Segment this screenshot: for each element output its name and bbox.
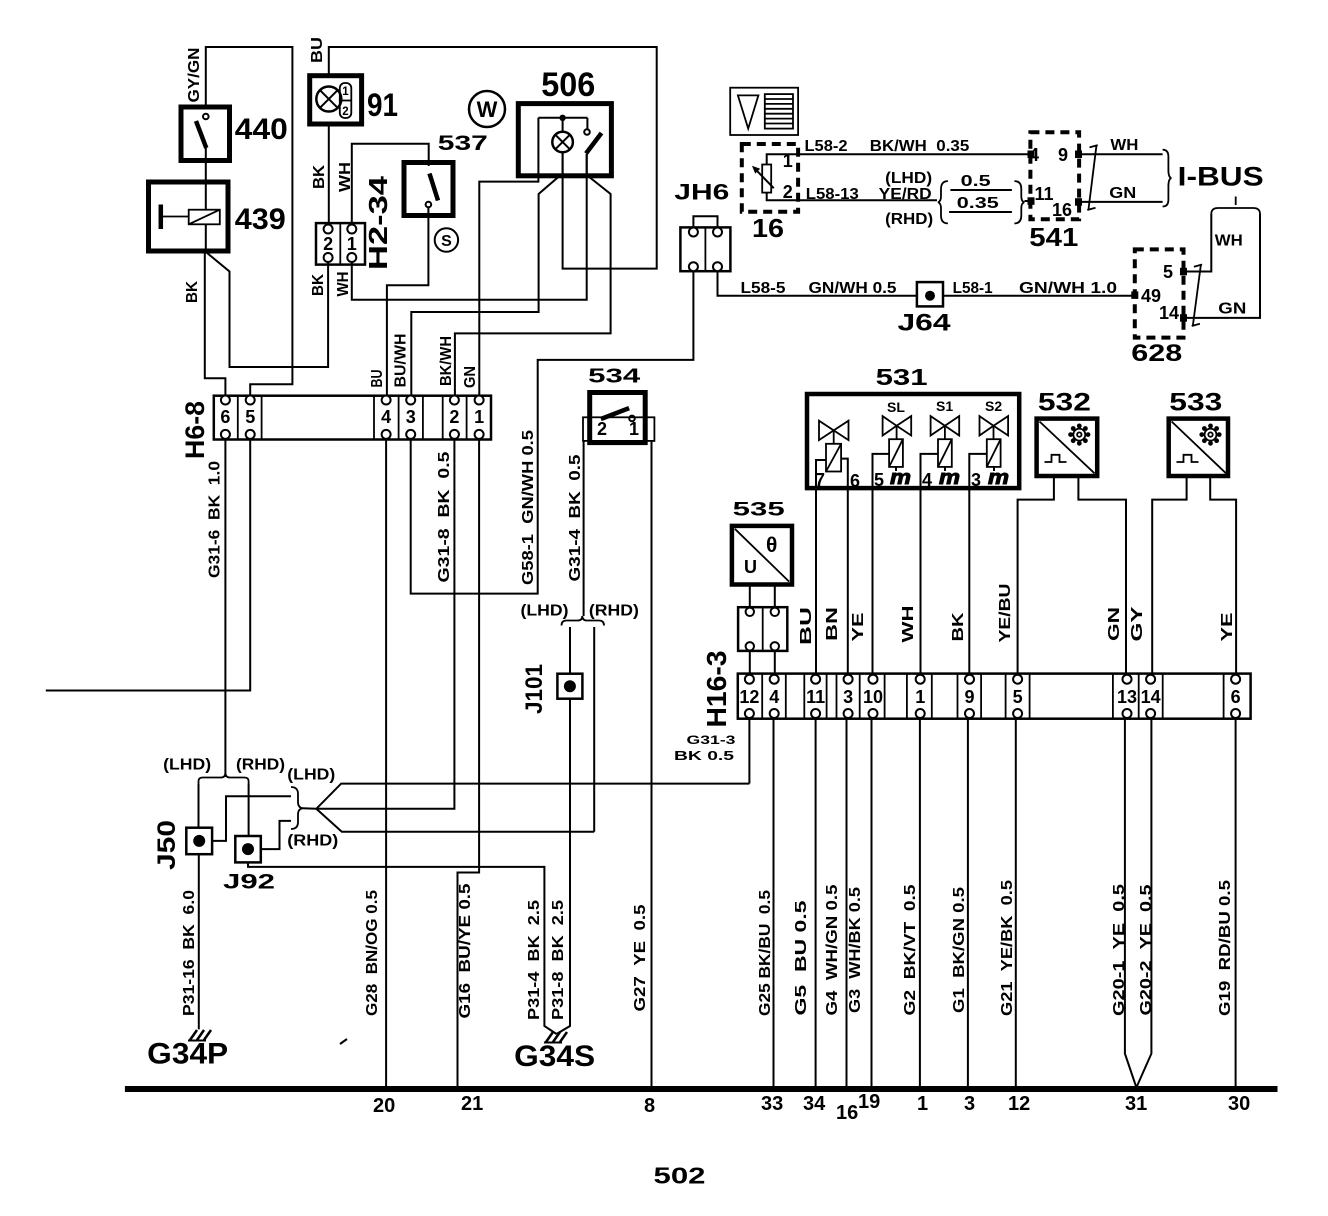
wire 535 stubs	[749, 585, 751, 608]
svg-text:3: 3	[964, 1093, 975, 1115]
wire J92 right to merge brace	[261, 821, 291, 849]
svg-text:502: 502	[654, 1163, 706, 1189]
twisted pair mark 628	[1192, 265, 1202, 327]
wire JH6 top bridge	[693, 216, 717, 227]
svg-text:G1 BK/GN 0.5: G1 BK/GN 0.5	[951, 887, 968, 1013]
svg-text:12: 12	[1008, 1093, 1030, 1115]
svg-text:GN: GN	[1106, 607, 1123, 641]
wire H6-8 pin 2 to LHD/RHD merge point (G31-8 BK 0.5)	[316, 439, 454, 809]
svg-text:SL: SL	[887, 399, 905, 415]
ground G34P	[188, 1030, 211, 1041]
wire 531 pin6 to H16-3 pin 3	[847, 488, 849, 675]
wire 541 pin9 WH to I-BUS	[1082, 153, 1163, 155]
wire I-BUS GN to 628 pin 14	[1187, 214, 1261, 318]
component 16 (sensor, dashed)	[742, 144, 798, 212]
wire H16-3 pin 1 to rail 1 (G2 BK/VT)	[919, 719, 921, 1090]
relay 439	[149, 182, 229, 251]
svg-text:0.35: 0.35	[957, 195, 1000, 212]
svg-text:11: 11	[806, 687, 825, 707]
svg-text:H2-34: H2-34	[363, 175, 393, 270]
wire 439 to H6-8 pin 6	[205, 251, 226, 396]
valve block 531	[807, 394, 1019, 488]
svg-text:G3 WH/BK 0.5: G3 WH/BK 0.5	[847, 887, 864, 1013]
svg-text:4: 4	[381, 407, 391, 427]
wire merge V upper branch (LHD) to pin12 wire	[316, 784, 749, 809]
wire 16 pin1 to 541 pin4 (L58-2 BK/WH)	[767, 154, 1031, 164]
brace left	[938, 181, 948, 223]
bracket LHD/RHD at 534	[562, 616, 605, 626]
wire 532 to H16-3 pin 5 (YE/BU)	[1018, 476, 1054, 675]
svg-text:8: 8	[644, 1095, 655, 1117]
wire H16-3 pin 9 to rail 3 (G1 BK/GN)	[967, 719, 969, 1090]
svg-text:21: 21	[461, 1093, 483, 1115]
ground G34S	[544, 1032, 567, 1043]
svg-text:541: 541	[1029, 222, 1078, 252]
valve 531-S1	[921, 398, 961, 490]
svg-text:WH: WH	[1215, 233, 1243, 250]
svg-text:G19 RD/BU 0.5: G19 RD/BU 0.5	[1217, 880, 1234, 1016]
connector JH6	[680, 227, 730, 271]
svg-text:J92: J92	[223, 871, 275, 894]
wire H16-3 pin 14 to rail 31 (G20-2 YE)	[1136, 719, 1151, 1088]
svg-text:4: 4	[922, 470, 932, 490]
svg-text:JH6: JH6	[674, 180, 729, 205]
svg-text:5: 5	[1013, 687, 1023, 707]
svg-text:3: 3	[406, 407, 416, 427]
sensor 533	[1169, 419, 1228, 476]
valve 531-S2	[969, 398, 1009, 490]
brace I-BUS	[1163, 150, 1172, 207]
svg-text:7: 7	[815, 470, 825, 490]
wire 533 to H16-3 pin 6 (YE)	[1210, 476, 1236, 675]
wire 533 to H16-3 pin 14 (GY)	[1152, 476, 1186, 675]
wire H6-8 pin 1 to rail 21 (G16 BU/YE)	[458, 439, 480, 1090]
svg-text:BK/WH: BK/WH	[870, 138, 927, 155]
wire H16-3 pin 10 to rail 19 (G3 WH/BK)	[871, 719, 873, 1090]
svg-text:14: 14	[1141, 687, 1161, 707]
svg-text:G4 WH/GN 0.5: G4 WH/GN 0.5	[824, 884, 841, 1015]
I-BUS lower brace	[1211, 197, 1260, 215]
svg-text:(RHD): (RHD)	[236, 757, 285, 774]
wire H16-3 pin 13 to rail 31 (G20-1 YE)	[1125, 719, 1137, 1088]
svg-text:GN/WH 1.0: GN/WH 1.0	[1019, 280, 1117, 297]
svg-text:16: 16	[1052, 200, 1072, 220]
svg-text:1: 1	[347, 234, 357, 254]
svg-text:G27 YE 0.5: G27 YE 0.5	[632, 904, 649, 1011]
svg-text:5: 5	[874, 470, 884, 490]
valve 531-SL	[873, 399, 912, 490]
svg-text:33: 33	[761, 1093, 783, 1115]
svg-text:9: 9	[964, 687, 974, 707]
wire RHD branch down to lower LHD/RHD line	[593, 627, 595, 832]
svg-text:531: 531	[876, 364, 928, 390]
svg-text:BK: BK	[184, 280, 201, 303]
svg-text:20: 20	[373, 1095, 395, 1117]
svg-text:537: 537	[438, 131, 488, 155]
wire 535 to H16-3 pins 12,4	[749, 651, 751, 675]
wire GY/GN net: 440 top to H6-8 pin 5	[206, 47, 293, 396]
svg-text:535: 535	[733, 500, 786, 521]
svg-text:2: 2	[783, 182, 793, 202]
svg-text:L58-2: L58-2	[805, 138, 848, 155]
svg-text:BK: BK	[310, 273, 327, 296]
connector H6-8	[214, 396, 491, 440]
wire 506 switch diagonal to H6-8 pin 2 (BK/WH)	[455, 176, 611, 396]
svg-text:BU: BU	[309, 37, 326, 63]
svg-text:S2: S2	[985, 398, 1002, 414]
svg-text:16: 16	[752, 213, 784, 243]
svg-text:BK: BK	[950, 611, 967, 641]
svg-text:WH: WH	[900, 606, 917, 643]
svg-text:P31-16 BK 6.0: P31-16 BK 6.0	[181, 890, 198, 1016]
sensor 532	[1037, 419, 1098, 476]
svg-text:BK 0.5: BK 0.5	[674, 749, 734, 763]
svg-text:(RHD): (RHD)	[885, 211, 933, 228]
svg-text:6: 6	[220, 407, 230, 427]
svg-text:G20-1 YE 0.5: G20-1 YE 0.5	[1111, 884, 1128, 1016]
wire 0.5 (LHD alternative)	[950, 189, 1012, 191]
brace right	[1014, 181, 1024, 223]
wire H16-3 pin 6 to rail 30 (G19 RD/BU)	[1235, 719, 1237, 1090]
svg-text:5: 5	[245, 407, 255, 427]
svg-text:θ: θ	[766, 534, 777, 557]
svg-text:532: 532	[1038, 389, 1091, 417]
svg-text:4: 4	[769, 687, 779, 707]
connector 541 (dashed)	[1028, 132, 1083, 220]
switch 537	[404, 163, 453, 216]
wire H16-3 pin 4 to rail 33 (G25 BK/BU)	[773, 719, 775, 1090]
stray mark	[340, 1039, 347, 1044]
svg-text:4: 4	[1029, 145, 1039, 165]
wire H2-34 pin1 to 537 (WH)	[352, 144, 429, 225]
svg-text:G16 BU/YE 0.5: G16 BU/YE 0.5	[457, 883, 474, 1018]
wire brace point to merge V	[303, 807, 317, 810]
ground rail 502	[125, 1086, 1278, 1092]
wire JH6 right pin to J64 to 628 pin 49 (L58 GN/WH)	[718, 271, 917, 296]
svg-text:YE/BU: YE/BU	[997, 584, 1014, 643]
svg-text:GN: GN	[1218, 301, 1246, 318]
svg-text:(LHD): (LHD)	[163, 757, 211, 774]
wire 531 pin5 to H16-3 pin 10	[872, 488, 874, 675]
svg-text:BK/WH: BK/WH	[438, 336, 455, 386]
svg-text:2: 2	[449, 407, 459, 427]
svg-text:YE: YE	[1219, 613, 1236, 642]
twisted pair mark 541	[1087, 145, 1097, 210]
svg-text:H6-8: H6-8	[180, 401, 210, 459]
svg-text:BU: BU	[369, 370, 386, 388]
svg-text:(LHD): (LHD)	[287, 767, 335, 784]
wire 541 pin16 GN to I-BUS	[1082, 201, 1163, 203]
wire bracket to J50	[198, 784, 200, 828]
wire 506 lamp diagonal to H6-8 pin 3 (BU/WH)	[411, 176, 559, 396]
wire H16-3 pin 5 to rail 12 (G21 YE/BK)	[1015, 719, 1017, 1090]
svg-text:G34S: G34S	[514, 1040, 595, 1073]
svg-text:3: 3	[971, 470, 981, 490]
svg-text:m: m	[890, 467, 911, 489]
svg-text:G31-4 BK 0.5: G31-4 BK 0.5	[567, 454, 584, 581]
svg-text:G20-2 YE 0.5: G20-2 YE 0.5	[1138, 884, 1155, 1015]
junction J92	[235, 836, 260, 862]
wire 0.35 (RHD alternative)	[949, 211, 1012, 213]
wire bracket to J92	[248, 784, 250, 836]
svg-text:L58-1: L58-1	[953, 280, 993, 297]
svg-text:506: 506	[541, 66, 595, 104]
svg-text:GN: GN	[462, 366, 479, 388]
connector 628 (dashed)	[1131, 249, 1187, 337]
svg-text:P31-4 BK 2.5: P31-4 BK 2.5	[526, 900, 543, 1020]
wire 506 left leg to H6-8 pin 1 (GN)	[479, 118, 538, 396]
svg-text:2: 2	[323, 234, 333, 254]
connector H16-3	[738, 674, 1251, 719]
wire LHD branch to J101	[569, 627, 571, 674]
lamp 91	[310, 76, 362, 124]
svg-text:34: 34	[803, 1093, 826, 1115]
svg-text:31: 31	[1125, 1093, 1147, 1115]
svg-text:WH: WH	[335, 272, 352, 297]
svg-text:12: 12	[739, 687, 759, 707]
lamp-switch unit 506	[518, 104, 611, 176]
wire H16-3 pin 11 to rail 34 (G5 BU)	[815, 719, 817, 1090]
junction J101	[557, 674, 582, 699]
valve 531-7/6	[815, 421, 860, 491]
svg-text:L58-13: L58-13	[806, 186, 859, 203]
junction J50	[186, 828, 212, 855]
wire 534 pin 2 down to LHD/RHD bracket (G31-4 BK)	[583, 441, 585, 616]
svg-text:G5 BU 0.5: G5 BU 0.5	[793, 900, 810, 1016]
wire J50 right to merge brace	[212, 796, 291, 841]
svg-text:GN/WH 0.5: GN/WH 0.5	[809, 280, 897, 297]
svg-text:(LHD): (LHD)	[521, 603, 569, 620]
svg-text:1: 1	[342, 86, 349, 98]
wire 534 pin 1 to ground rail 8 (G27 YE)	[651, 441, 653, 1090]
svg-text:1: 1	[917, 1093, 928, 1115]
wire H6-8 pin 5 off-page left	[46, 439, 250, 691]
wire J50 to ground G34P (P31-16 BK 6.0)	[198, 854, 200, 1029]
svg-text:440: 440	[235, 113, 288, 146]
wire J92 to G34S (P31-4 BK 2.5)	[248, 862, 557, 1034]
brace merge J50/J92	[291, 787, 303, 829]
svg-text:L58-5: L58-5	[741, 280, 786, 297]
node W	[469, 91, 505, 127]
svg-text:439: 439	[235, 203, 286, 236]
svg-text:14: 14	[1159, 303, 1179, 323]
svg-text:GY/GN: GY/GN	[186, 48, 203, 103]
connector 535 sub	[738, 607, 787, 651]
wire H6-8 pin 4 to rail 20 (G28 BN/OG)	[385, 439, 387, 1090]
svg-text:1: 1	[915, 687, 925, 707]
svg-text:I-BUS: I-BUS	[1178, 162, 1264, 192]
svg-text:5: 5	[1163, 262, 1173, 282]
svg-text:10: 10	[863, 687, 883, 707]
wire 531 pin7 to H16-3 pin 11	[815, 488, 817, 675]
svg-text:6: 6	[1231, 687, 1241, 707]
wire 531 pin3 to H16-3 pin 9	[968, 488, 970, 675]
svg-text:WH: WH	[337, 162, 354, 192]
svg-text:0.35: 0.35	[936, 138, 969, 155]
wire BU net: top rail to 91 and 506 lamp	[329, 47, 657, 269]
svg-text:m: m	[939, 467, 960, 489]
svg-text:G34P: G34P	[147, 1037, 228, 1070]
svg-text:G31-8 BK 0.5: G31-8 BK 0.5	[436, 451, 453, 582]
svg-text:YE/RD: YE/RD	[879, 186, 932, 203]
icon box (component 16 symbol)	[730, 88, 798, 135]
wire 531 pin4 to H16-3 pin 1	[920, 488, 922, 675]
svg-text:J101: J101	[521, 664, 548, 714]
svg-text:P31-8 BK 2.5: P31-8 BK 2.5	[550, 900, 567, 1020]
svg-text:628: 628	[1131, 340, 1182, 367]
wire 537 to H6-8 pin 4	[387, 216, 429, 396]
switch 534	[583, 393, 654, 443]
svg-text:2: 2	[597, 419, 607, 439]
wire brace to 541 pin 11	[1025, 200, 1032, 202]
svg-text:BK: BK	[311, 164, 328, 189]
wire I-BUS WH to 628 pin 5	[1187, 214, 1212, 272]
wire J101 to G34S (P31-8 BK 2.5)	[557, 699, 571, 1034]
svg-text:WH: WH	[1110, 137, 1138, 154]
switch 440	[181, 107, 230, 182]
svg-text:BU: BU	[798, 607, 815, 645]
sensor 535	[732, 526, 792, 585]
svg-text:H16-3: H16-3	[701, 651, 732, 728]
wire H16-3 pin 12 to G31-3 net	[748, 719, 750, 784]
svg-text:G31-3: G31-3	[687, 735, 736, 747]
svg-text:(RHD): (RHD)	[287, 833, 338, 850]
node S	[435, 228, 458, 251]
svg-text:BN: BN	[824, 607, 841, 641]
svg-text:13: 13	[1117, 687, 1137, 707]
junction J64	[917, 282, 943, 306]
svg-text:1: 1	[629, 419, 639, 439]
svg-text:G2 BK/VT 0.5: G2 BK/VT 0.5	[902, 884, 919, 1015]
wire H6-8 pin 6 to J50/J92 bracket (G31-6 BK 1.0)	[224, 439, 226, 777]
svg-text:(LHD): (LHD)	[885, 170, 932, 187]
svg-text:1: 1	[474, 407, 484, 427]
svg-text:BU/WH: BU/WH	[393, 334, 410, 388]
svg-text:G28 BN/OG 0.5: G28 BN/OG 0.5	[364, 890, 381, 1016]
svg-text:J50: J50	[153, 820, 181, 870]
svg-text:3: 3	[843, 687, 853, 707]
svg-text:YE: YE	[850, 613, 867, 642]
wire merge V lower branch (RHD)	[316, 809, 594, 832]
svg-text:19: 19	[858, 1091, 880, 1113]
wire JH6 left pin to H6-8 pin 3 (G58-1 GN/WH)	[411, 271, 694, 593]
svg-text:GN: GN	[1109, 185, 1136, 202]
svg-text:533: 533	[1169, 389, 1222, 417]
svg-text:0.5: 0.5	[961, 173, 992, 190]
bracket J50/J92 LHD/RHD	[199, 773, 249, 784]
wire H16-3 pin 3 to rail 16 (G4 WH/GN)	[846, 719, 848, 1090]
svg-text:16: 16	[836, 1102, 858, 1124]
svg-text:S: S	[441, 233, 452, 250]
svg-text:W: W	[477, 97, 498, 122]
wire H2-34 pin1 to 506 switch (WH)	[352, 154, 587, 300]
svg-text:S1: S1	[936, 398, 953, 414]
svg-text:91: 91	[367, 87, 398, 123]
svg-text:30: 30	[1228, 1093, 1250, 1115]
svg-text:m: m	[988, 467, 1009, 489]
svg-text:J64: J64	[898, 310, 952, 337]
wire 439 to H2-34 pin 2 (BK)	[207, 253, 329, 368]
svg-text:GY: GY	[1129, 605, 1146, 641]
svg-text:9: 9	[1058, 145, 1068, 165]
svg-text:2: 2	[342, 106, 348, 118]
svg-text:(RHD): (RHD)	[589, 603, 639, 620]
svg-text:G21 YE/BK 0.5: G21 YE/BK 0.5	[999, 880, 1016, 1016]
svg-text:G25 BK/BU 0.5: G25 BK/BU 0.5	[757, 890, 774, 1016]
svg-text:534: 534	[588, 366, 641, 388]
svg-text:G58-1 GN/WH 0.5: G58-1 GN/WH 0.5	[520, 430, 537, 585]
svg-text:G31-6 BK 1.0: G31-6 BK 1.0	[207, 461, 224, 578]
svg-text:11: 11	[1034, 184, 1053, 204]
svg-text:U: U	[744, 557, 757, 577]
connector H2-34	[316, 223, 365, 265]
wire 91 to H2-34 pin 2 (BK)	[328, 124, 330, 225]
wire 16 pin2 to brace (L58-13 YE/RD)	[767, 193, 937, 201]
wire 532 to H16-3 pin 13 (GN)	[1078, 476, 1126, 675]
svg-text:6: 6	[850, 471, 860, 491]
